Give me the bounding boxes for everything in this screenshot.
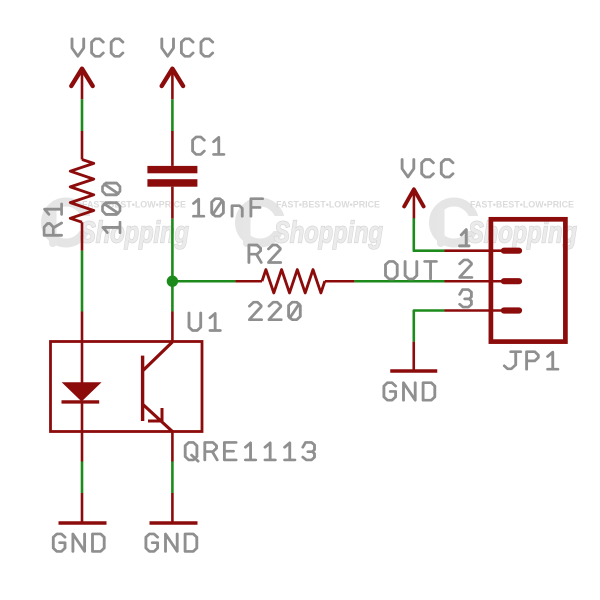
wire junction to R2 [172,280,235,283]
label R1 (rotated) [44,204,62,235]
pin number 1 [460,230,469,246]
ground symbol (JP1 branch) [390,342,437,371]
VCC label (C1 branch) [162,39,213,57]
opto-interrupter U1 body [51,342,203,432]
label R2 [249,245,281,263]
label C1 [193,137,224,155]
svg-text:FAST•BEST•LOW•PRICE: FAST•BEST•LOW•PRICE [276,200,380,210]
GND label (JP1 branch) [384,383,435,401]
junction node [167,276,178,287]
wire VCC net to R1 pin [81,99,84,131]
pin number 3 [460,290,472,308]
value 100 (rotated) [103,183,121,232]
wire U1 emitter to GND [171,432,174,494]
VCC label (R1 branch) [72,39,123,57]
net label OUT [386,261,437,279]
GND label (emitter branch) [146,534,197,552]
svg-text:Shopping: Shopping [274,216,383,250]
value 220 [249,302,300,320]
wire U1 LED cathode to GND [81,432,84,494]
resistor R1 [70,131,93,251]
svg-text:FAST•BEST•LOW•PRICE: FAST•BEST•LOW•PRICE [82,200,186,210]
wire VCC to JP1 pin 1 [414,218,445,250]
GND label (LED branch) [53,534,104,552]
supply symbol VCC (JP1 branch) [404,189,423,218]
label JP1 [504,352,558,370]
wire junction to U1 collector pin [171,312,174,342]
pin number 2 [460,260,472,278]
U1 LED (emitter diode) [62,342,100,432]
wire JP1 pin 3 to GND [414,311,445,342]
value QRE1113 [185,442,314,461]
VCC label (JP1 branch) [402,160,453,178]
resistor R2 [235,270,354,293]
ground symbol (LED branch) [59,493,107,523]
wire R1 to U1 anode pin [81,312,84,342]
U1 phototransistor [143,342,173,432]
capacitor C1 [147,131,197,219]
value 10nF [194,199,263,217]
wire R1 to U1 LED anode [81,251,84,312]
supply symbol VCC (R1 branch) [71,69,92,100]
svg-text:FAST•BEST•LOW•PRICE: FAST•BEST•LOW•PRICE [470,200,574,210]
label U1 [189,313,220,331]
wire R2 to JP1 pin 2 (OUT net) [354,280,444,283]
ground symbol (emitter branch) [150,493,198,523]
connector JP1 [445,219,566,341]
wire VCC net to C1 [171,99,174,131]
wire C1 to junction to U1 collector [171,219,174,312]
supply symbol VCC (C1 branch) [162,69,183,100]
